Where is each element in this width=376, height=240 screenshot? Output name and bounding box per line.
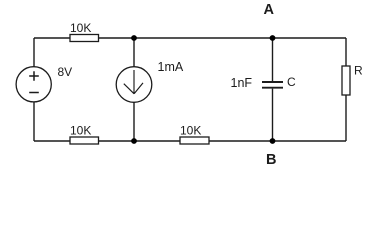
voltage source V (8V) — [16, 67, 51, 102]
resistor R (right) — [342, 66, 350, 95]
label C — [287, 75, 296, 89]
junction at bottom of capacitor branch (node B) — [270, 138, 276, 144]
node A label — [264, 2, 275, 18]
label 10K (bottom left) — [70, 124, 91, 138]
wire top rail — [34, 37, 346, 39]
svg-text:A: A — [264, 2, 275, 18]
svg-text:R: R — [354, 64, 363, 78]
resistor 10K (top) — [70, 35, 99, 42]
svg-text:10K: 10K — [180, 124, 201, 138]
label 10K (bottom middle) — [180, 124, 201, 138]
wire capacitor branch — [272, 38, 274, 141]
svg-text:C: C — [287, 75, 296, 89]
svg-text:8V: 8V — [58, 65, 73, 79]
svg-text:10K: 10K — [70, 124, 91, 138]
label R — [354, 64, 363, 78]
svg-text:10K: 10K — [70, 21, 91, 35]
wire bottom rail — [34, 140, 346, 142]
resistor 10K (bottom middle) — [180, 137, 209, 144]
svg-text:B: B — [266, 152, 276, 168]
resistor 10K (bottom left) — [70, 137, 99, 144]
junction at top of capacitor branch (node A) — [270, 35, 276, 41]
capacitor C (1nF) — [262, 82, 283, 88]
wire right branch (resistor R leads) — [345, 38, 347, 141]
wire left branch (voltage source leads) — [33, 38, 35, 141]
current source I (1mA) — [116, 67, 152, 103]
label 1nF — [231, 76, 253, 90]
svg-text:1nF: 1nF — [231, 76, 253, 90]
node B label — [266, 152, 276, 168]
label 8V — [58, 65, 73, 79]
svg-text:1mA: 1mA — [158, 60, 184, 74]
junction at bottom of current source branch — [131, 138, 137, 144]
junction at top of current source branch — [131, 35, 137, 41]
label 10K (top) — [70, 21, 91, 35]
label 1mA — [158, 60, 184, 74]
wire current source branch — [133, 38, 135, 141]
